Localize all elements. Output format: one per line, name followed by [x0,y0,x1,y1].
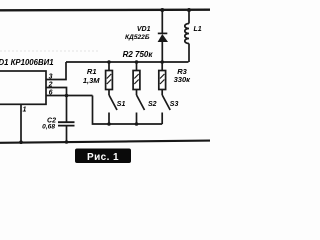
svg-text:0,68: 0,68 [42,124,55,131]
capacitor C2 plates [58,121,75,123]
svg-text:D1 КР1006ВИ1: D1 КР1006ВИ1 [0,58,54,67]
inductor L1 bottom wire [188,44,190,63]
node junction VD1-toprail [160,8,164,12]
scan artifact dotted line [0,50,100,52]
svg-text:VD1: VD1 [137,26,151,33]
node junction pins 2-6 [65,94,69,98]
svg-text:1,3М: 1,3М [83,76,100,85]
wire switch common line [93,96,163,125]
resistor R1 [108,62,110,71]
diode VD1 triangle [158,34,168,42]
wire output feedback rail [66,61,189,63]
diode VD1 cathode wire [161,10,163,33]
node junction R1-rail [107,60,111,64]
node junction S1-common [107,122,111,126]
svg-text:3: 3 [49,73,53,80]
op-amp U1 timer IC DA1 KR1006VI1 body [0,71,46,104]
svg-text:2: 2 [48,81,53,88]
svg-text:R1: R1 [87,67,97,76]
pin 3 wire [46,62,66,80]
svg-text:L1: L1 [194,26,202,33]
node junction R2-rail [135,60,139,64]
switch S1 [109,95,117,110]
svg-text:Рис. 1: Рис. 1 [87,152,119,163]
node junction R3-rail [160,60,164,64]
capacitor C2 bottom lead [66,126,68,142]
node junction S2-common [135,122,139,126]
wire top +V rail [0,9,210,12]
svg-text:330к: 330к [174,75,192,84]
diode VD1 cathode bar [158,32,168,34]
svg-text:1: 1 [23,107,27,114]
node junction pin1-ground [19,140,23,144]
resistor R3 [161,62,163,71]
svg-text:S1: S1 [117,101,126,108]
capacitor C2 top lead [66,96,68,123]
svg-text:КД522Б: КД522Б [125,34,150,41]
svg-text:6: 6 [49,89,53,96]
pin 2 wire [46,88,67,96]
node junction C2-ground [65,140,69,144]
diode VD1 anode wire [161,42,163,62]
inductor L1 coil [185,24,189,44]
pin 6 wire [46,95,93,97]
pin 1 wire [20,104,22,142]
svg-text:R2 750к: R2 750к [123,50,154,59]
node junction L1-toprail [187,8,191,12]
caption Рис. 1 [75,149,131,164]
switch S3 [162,95,170,110]
svg-text:S3: S3 [170,101,179,108]
wire ground rail [0,141,210,143]
inductor L1 top wire [188,10,190,24]
resistor R2 [136,62,138,71]
switch S2 [137,95,145,110]
svg-text:S2: S2 [148,101,157,108]
